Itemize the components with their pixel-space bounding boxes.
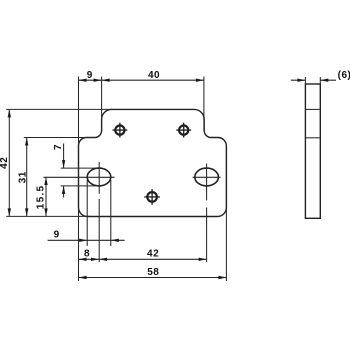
hole top-left crosshair [113,123,128,138]
slot right [195,168,219,186]
arrow right tip 101.6 (9) [94,79,102,82]
extension line plate bottom y=216.4 [6,215,90,217]
extension line slot top tangent y=168.1 [61,167,99,169]
slot left centerline horizontal [44,176,115,178]
extension line plate top y=109.4 [6,108,112,110]
arrow right tip 305.4 [297,79,305,82]
dimension line 42 left [8,109,10,216]
svg-text:58: 58 [147,267,159,278]
extension line slot left tangent x=87.2 [86,180,88,246]
arrow left tip 78.5 (8) [79,258,87,261]
slot left [87,168,111,186]
dimension 7 (outside arrows) [63,144,65,198]
arrow up tip 177 [44,177,47,185]
arrow left tip 101.6 (40) [102,79,110,82]
svg-text:8: 8 [84,249,90,260]
arrow down tip 216.4 [8,208,11,216]
extension line slot right tangent x=110.8 [110,180,112,246]
dimension line 8 and 42 bottom [79,258,207,260]
arrow right tip 87.2 [79,239,87,242]
side view edge line upper [305,108,320,110]
arrow left tip 78.5 [79,79,87,82]
extension line side view left [304,77,306,84]
svg-text:42: 42 [147,249,159,260]
extension line plate right edge x=226.4 [225,146,227,281]
arrow left tip 99 (42) [99,258,107,261]
svg-text:9: 9 [54,230,60,241]
hole top-right [179,126,188,135]
arrow left tip 110.8 [111,239,119,242]
slot left centerline vertical [98,162,100,262]
svg-text:9: 9 [87,70,93,81]
plate outline (front view) [79,109,227,216]
extension line side view right [319,77,321,84]
arrow right tip 206.6 (42) [199,258,207,261]
side view rectangle [305,84,320,218]
arrow down tip 216.4 [44,208,47,216]
dimension line side (6) [291,79,336,81]
hole top-right crosshair [176,123,191,138]
arrow right tip 226.4 (58) [218,276,226,279]
hole bottom-center crosshair [144,189,160,205]
extension line slot bottom tangent y=185.9 [61,185,99,187]
arrow down tip 216.4 [25,208,28,216]
arrow left tip 320.3 [320,79,328,82]
svg-text:42: 42 [0,157,10,169]
dimension line 15.5 [45,177,47,216]
dimension line 58 [79,277,227,279]
svg-text:40: 40 [148,70,160,81]
extension line ledge y=137.5 [24,137,95,139]
arrow down tip 168.1 [62,160,65,168]
slot right centerline horizontal [193,176,221,178]
extension line step right x=203.9 [203,77,205,132]
arrow up tip 185.9 [62,186,65,194]
hole top-left [115,126,124,135]
arrow right tip 203.9 (40) [196,79,204,82]
dimension line 31 [26,138,28,217]
svg-text:(6): (6) [338,70,350,81]
slot right centerline vertical [206,164,208,263]
arrow up tip 109.4 [8,109,11,117]
dimension line 9 bottom (slot length) [48,239,125,241]
hole bottom-center [147,192,157,202]
extension line step left x=101.6 [101,77,103,132]
svg-text:31: 31 [17,171,28,183]
arrow right tip 99 (8) [91,258,99,261]
arrow up tip 137.5 [25,138,28,146]
extension line left edge x=78.5 [78,77,80,282]
dimension line top (9 and 40) [79,79,204,81]
side view edge line lower [305,137,320,139]
svg-text:7: 7 [53,144,64,150]
svg-text:15.5: 15.5 [35,185,46,210]
arrow left tip 78.5 (58) [79,276,87,279]
